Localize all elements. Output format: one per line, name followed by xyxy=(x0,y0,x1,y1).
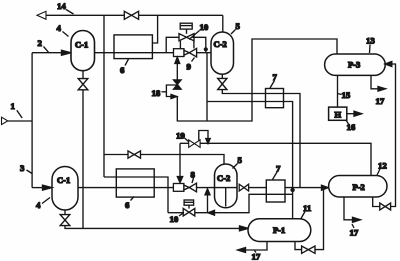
valve under C-1 bottom (filled) xyxy=(60,210,70,226)
loop over valve 19 xyxy=(199,131,208,142)
heat exchanger 7 bottom xyxy=(266,180,285,202)
vessel C-1 bottom xyxy=(52,167,78,211)
arrow on loop 18 xyxy=(171,94,177,98)
wire junction down to P-1 top xyxy=(292,190,294,219)
svg-text:9: 9 xyxy=(187,62,192,72)
label 19 xyxy=(176,131,189,143)
valve on line14 xyxy=(124,11,138,19)
control valve 10 bottom: body xyxy=(183,208,195,216)
heat exchanger 6 top xyxy=(114,35,152,59)
wire line14 top header xyxy=(46,14,223,16)
wire C-1 top outlet to ejector 9 xyxy=(95,52,174,54)
label 10 top xyxy=(189,22,209,40)
wire P-2 drain 17 xyxy=(344,197,361,222)
loop around valve 18 xyxy=(166,85,177,97)
valve on C-2 bottom feed xyxy=(128,151,141,158)
svg-text:18: 18 xyxy=(152,88,161,98)
label 6 bottom xyxy=(125,197,134,211)
wire P-1 bottom through valve to P-2 feed xyxy=(295,188,324,250)
label 10 bottom xyxy=(170,213,185,225)
svg-text:17: 17 xyxy=(252,252,261,261)
svg-text:10: 10 xyxy=(200,22,209,32)
wire P-3 drain 17 xyxy=(371,75,386,91)
control valve 10 top: valve body xyxy=(179,34,194,41)
svg-text:4: 4 xyxy=(36,200,41,210)
arrow down on loop 19 xyxy=(206,139,210,144)
label 4 top xyxy=(57,23,69,37)
valve under C-1 top (filled) xyxy=(78,71,88,90)
label 18 xyxy=(152,88,167,98)
wire bypass down-leg right xyxy=(192,37,206,52)
wire riser into main line xyxy=(205,189,210,213)
ejector 8: body xyxy=(173,183,196,192)
label 3 xyxy=(20,163,32,174)
vessel C-1 top xyxy=(71,31,95,71)
svg-text:10: 10 xyxy=(170,214,179,224)
wire left feed vertical xyxy=(31,53,33,188)
label 8 xyxy=(191,170,196,184)
vessel P-2 xyxy=(329,176,387,198)
label 5 top xyxy=(231,21,241,34)
wire ejector 9 suction riser xyxy=(176,57,178,80)
svg-text:C-1: C-1 xyxy=(75,40,88,50)
wire P-3 bottom to H box xyxy=(337,75,339,107)
svg-text:7: 7 xyxy=(273,72,278,82)
valve 19 xyxy=(189,140,200,148)
svg-text:17: 17 xyxy=(376,96,385,106)
vessel C-2 bottom xyxy=(215,164,238,208)
label 15 xyxy=(338,90,351,100)
svg-text:5: 5 xyxy=(236,21,241,31)
label 13 xyxy=(366,36,375,54)
svg-text:2: 2 xyxy=(38,38,43,48)
wire valve10 to ejector stubs xyxy=(180,41,194,49)
label 9 xyxy=(187,58,195,72)
node junction dot at bypass/main xyxy=(204,47,208,51)
wire C-2 bottom outlet to exchanger 7 bottom xyxy=(249,187,267,189)
svg-text:5: 5 xyxy=(238,155,243,165)
wire C-1 bottom outlet main line xyxy=(78,187,215,189)
wire valve19 down into ejector 8 xyxy=(177,143,182,182)
label 11 xyxy=(301,203,311,219)
svg-text:3: 3 xyxy=(20,163,25,173)
wire ejector 9 outlet to C-2 top xyxy=(197,52,211,54)
svg-text:C-2: C-2 xyxy=(214,39,227,49)
wire C-1 bottom drain to P-1 feed header xyxy=(65,226,241,229)
wire P-2 bottoms through valve up to P-3 xyxy=(373,64,396,207)
svg-text:19: 19 xyxy=(176,131,185,141)
dip tube inside C-2 bottom xyxy=(215,188,238,207)
wire exchanger 7 lower tube xyxy=(207,53,293,189)
label 14 xyxy=(57,1,74,14)
control valve 10 top: actuator xyxy=(180,23,192,34)
svg-text:C-2: C-2 xyxy=(217,173,230,183)
valve on P-1 bottom line xyxy=(302,246,315,253)
wire main line to P-2 xyxy=(285,187,323,189)
arrow feed 1 (hollow) xyxy=(2,117,33,124)
svg-text:H: H xyxy=(335,110,342,120)
vessel C-2 top xyxy=(211,32,234,74)
arrow into C-1 top xyxy=(62,50,72,55)
wire C-2 top bottoms to exchanger 7 xyxy=(222,90,300,188)
label 17 (P-3) xyxy=(376,96,385,106)
svg-text:17: 17 xyxy=(350,228,359,238)
ejector 9: body xyxy=(174,48,197,57)
control valve 10 bottom: actuator xyxy=(184,200,194,209)
arrow into P-1 xyxy=(240,226,249,231)
svg-text:4: 4 xyxy=(57,23,62,33)
wire exchanger 6 bottom upper tube xyxy=(104,177,168,213)
label 7 bottom xyxy=(273,164,282,180)
heat exchanger 6 bottom xyxy=(116,169,154,197)
wire C-2 top reflux: valve19 header to P-2 xyxy=(180,143,371,175)
heat exchanger 7 top xyxy=(266,89,284,108)
svg-text:C-1: C-1 xyxy=(57,175,70,185)
label 12 xyxy=(377,161,387,176)
arrow into P-2 xyxy=(322,185,329,190)
wire valve18 down to header xyxy=(177,39,337,121)
arrow up into ejector 9 xyxy=(175,57,180,63)
label 17 (P-2) xyxy=(350,224,359,238)
svg-text:P-3: P-3 xyxy=(348,60,360,70)
label 7 top xyxy=(270,72,278,88)
svg-text:6: 6 xyxy=(125,200,130,210)
valve at C-2 bottom outlet xyxy=(239,184,248,191)
label 16 xyxy=(347,121,356,132)
valve on P-2 bottoms xyxy=(380,203,391,210)
vessel P-1 xyxy=(248,219,311,242)
svg-text:1: 1 xyxy=(11,101,15,111)
wire stub line14 to exchanger 6 xyxy=(152,15,157,43)
wire C-2 bottom feed line with valve xyxy=(104,155,224,165)
wire valve 10 bottom run xyxy=(168,194,293,212)
svg-text:13: 13 xyxy=(366,36,375,46)
svg-text:14: 14 xyxy=(57,1,66,11)
label 6 top xyxy=(120,59,129,75)
arrow left on lower tube run xyxy=(208,210,215,215)
wire drop to C-2 top xyxy=(222,15,224,32)
label 17 (P-1) xyxy=(252,251,261,261)
label 1 xyxy=(11,101,23,118)
vessel P-3 xyxy=(325,54,386,75)
label 5 bottom xyxy=(233,155,243,169)
label 4 bottom xyxy=(36,198,50,211)
svg-text:15: 15 xyxy=(342,90,351,100)
valve 18 (filled) xyxy=(174,80,182,89)
svg-text:6: 6 xyxy=(120,65,125,75)
label 2 xyxy=(38,38,49,52)
wire C-1 top bottoms long vertical xyxy=(82,90,84,229)
arrow into P-3 right end xyxy=(385,62,392,67)
arrow into C-1 bottom xyxy=(32,185,52,190)
arrow out of H box xyxy=(347,111,362,116)
wire feed into C-1 top xyxy=(32,52,62,54)
node junction dot before P-2 xyxy=(290,188,294,192)
heater H box 16 xyxy=(329,107,347,120)
wire long vertical from line14 xyxy=(103,15,105,177)
valve under C-2 top (filled) xyxy=(218,74,227,89)
svg-text:P-1: P-1 xyxy=(273,225,285,235)
wire P-1 drain 17 xyxy=(238,242,268,253)
svg-text:P-2: P-2 xyxy=(353,182,365,192)
wire bypass up-leg left xyxy=(166,37,179,52)
arrow head line14 (hollow, left) xyxy=(37,11,46,19)
